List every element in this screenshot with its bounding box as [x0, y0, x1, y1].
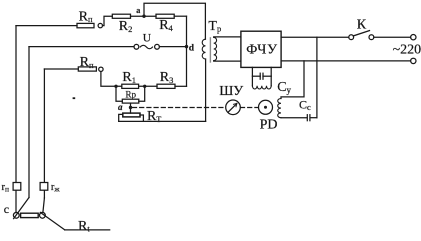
- svg-text:Rр: Rр: [126, 90, 137, 100]
- svg-text:~220: ~220: [393, 42, 421, 57]
- svg-text:rп: rп: [2, 182, 10, 194]
- svg-text:a: a: [118, 102, 123, 112]
- svg-text:d: d: [189, 44, 195, 54]
- svg-text:PD: PD: [260, 118, 278, 133]
- svg-text:К: К: [357, 17, 367, 32]
- svg-text:U: U: [143, 33, 152, 45]
- svg-text:a: a: [136, 6, 140, 15]
- svg-text:rж: rж: [51, 182, 61, 194]
- svg-text:ШУ: ШУ: [219, 84, 243, 99]
- svg-text:ФЧУ: ФЧУ: [246, 42, 278, 57]
- svg-text:c: c: [4, 202, 9, 216]
